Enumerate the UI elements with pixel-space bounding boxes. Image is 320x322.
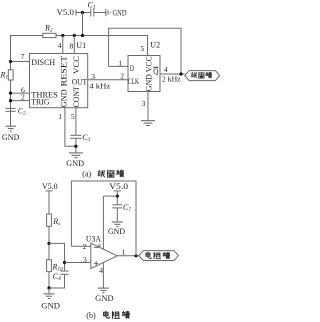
node junction output feedback bbox=[179, 72, 182, 75]
node junction output bbox=[134, 254, 137, 257]
svg-text:3: 3 bbox=[83, 255, 87, 264]
svg-text:8: 8 bbox=[97, 244, 103, 247]
node junction supply bbox=[116, 195, 119, 198]
U1 pin label THRES bbox=[31, 90, 58, 99]
wire pin 2 inverting input bbox=[71, 242, 90, 251]
wire V5.0 node down to rail bbox=[82, 13, 84, 36]
wire feedback output to pin 2 bbox=[71, 181, 136, 256]
svg-text:OUT: OUT bbox=[72, 78, 87, 87]
node junction C4 branch bbox=[63, 261, 66, 264]
svg-text:R1: R1 bbox=[0, 71, 8, 81]
ground below node B bbox=[41, 294, 60, 311]
svg-text:Rs: Rs bbox=[52, 217, 60, 227]
svg-text:4: 4 bbox=[99, 266, 103, 275]
wire V5.0 to Rs bbox=[48, 191, 50, 214]
svg-text:(a): (a) bbox=[82, 169, 91, 178]
U2 pin label VCC (rotated) bbox=[145, 56, 154, 72]
node junction pin7 bbox=[9, 60, 12, 63]
wire Qbar output pin 4 bbox=[160, 65, 185, 84]
svg-text:CLK: CLK bbox=[128, 77, 139, 86]
svg-text:TRIG: TRIG bbox=[31, 97, 49, 106]
IC U1 555 timer box bbox=[30, 41, 88, 108]
svg-text:VCC: VCC bbox=[72, 56, 81, 74]
capacitor C4 bbox=[53, 271, 69, 282]
ground below C2 bbox=[2, 126, 20, 142]
resistor Rs bbox=[47, 214, 61, 227]
capacitor C1 bbox=[88, 1, 96, 17]
svg-text:GND: GND bbox=[59, 89, 68, 107]
IC U2 flip-flop box bbox=[128, 40, 160, 91]
wire Rs to node A bbox=[48, 226, 50, 288]
wire pin 8 supply stub bbox=[97, 196, 104, 249]
resistor R1 bbox=[0, 70, 13, 81]
svg-text:Q: Q bbox=[153, 67, 158, 76]
wire V5.0 down to C7 bbox=[116, 191, 118, 205]
wire pin 6 THRES bbox=[11, 85, 30, 94]
wire U1 pin 1 GND bbox=[58, 108, 76, 147]
svg-text:GND: GND bbox=[2, 133, 20, 142]
svg-text:C7: C7 bbox=[123, 203, 131, 213]
capacitor C3 bbox=[70, 133, 90, 143]
svg-text:7: 7 bbox=[21, 52, 25, 61]
svg-text:C2: C2 bbox=[18, 106, 26, 116]
svg-text:U1: U1 bbox=[76, 41, 86, 50]
wire pin 3 OUT to CLK bbox=[88, 71, 128, 90]
ground (sideways) at C1 bbox=[106, 8, 127, 17]
wire pin 5 label U2 bbox=[141, 44, 145, 53]
wire C4 to node B bbox=[49, 274, 65, 288]
ground below C7 bbox=[108, 222, 125, 236]
wire C1 to ground bbox=[94, 12, 106, 14]
svg-text:2: 2 bbox=[21, 92, 25, 101]
svg-text:1: 1 bbox=[118, 59, 122, 68]
wire U1 pin 5 CONT bbox=[71, 108, 76, 136]
svg-text:GND: GND bbox=[108, 227, 125, 236]
wire C3 to ground bbox=[75, 138, 77, 153]
wire D input pin 1 bbox=[109, 59, 128, 68]
wire C2 to ground bbox=[10, 111, 12, 126]
node junction V5 rail bbox=[81, 34, 84, 37]
svg-text:V5.0: V5.0 bbox=[109, 182, 128, 191]
node junction B bbox=[47, 286, 50, 289]
svg-text:5: 5 bbox=[71, 112, 75, 121]
U2 pin label CLK bbox=[128, 77, 139, 86]
svg-text:2 kHz: 2 kHz bbox=[162, 74, 181, 83]
node junction A bbox=[47, 242, 50, 245]
node junction pin2 bbox=[9, 99, 12, 102]
op-amp U3A bbox=[86, 235, 117, 269]
svg-text:GND: GND bbox=[66, 159, 84, 168]
caption (a) 线圈端 bbox=[82, 169, 123, 178]
svg-text:1: 1 bbox=[122, 247, 126, 256]
net flag 线圈端 (coil end) bbox=[185, 71, 220, 81]
node junction pin8 bbox=[73, 34, 76, 37]
svg-text:3: 3 bbox=[142, 99, 146, 108]
caption (b) 电阻端 bbox=[86, 311, 129, 320]
wire supply branch to pin 8 bbox=[103, 195, 117, 197]
svg-text:C3: C3 bbox=[82, 133, 90, 143]
svg-text:C4: C4 bbox=[53, 272, 61, 282]
resistor R2 bbox=[43, 23, 56, 37]
wire pin 3 noninverting input bbox=[65, 255, 91, 264]
svg-text:U3A: U3A bbox=[86, 235, 101, 244]
svg-text:3: 3 bbox=[91, 72, 95, 81]
svg-text:2: 2 bbox=[83, 242, 87, 251]
svg-text:R2: R2 bbox=[44, 23, 53, 33]
wire pin 4 stub bbox=[58, 36, 63, 54]
U1 pin label TRIG bbox=[31, 97, 49, 106]
U1 pin label DISCH bbox=[31, 58, 55, 67]
wire feedback Qbar to D bbox=[109, 28, 181, 74]
wire pin 4 ground stub bbox=[99, 262, 103, 288]
ground below op-amp bbox=[95, 288, 114, 303]
svg-text:GND: GND bbox=[113, 8, 127, 17]
ground below U2 bbox=[141, 121, 155, 126]
U1 pin label CONT (rotated) bbox=[72, 86, 81, 107]
svg-text:(b): (b) bbox=[86, 311, 96, 320]
U1 pin label GND (rotated) bbox=[59, 89, 68, 107]
svg-text:4: 4 bbox=[58, 41, 62, 50]
svg-text:4 kHz: 4 kHz bbox=[89, 81, 111, 90]
wire U2 pin 3 to ground bbox=[142, 92, 148, 121]
svg-text:5: 5 bbox=[141, 44, 145, 53]
wire C7 to ground bbox=[116, 208, 118, 222]
svg-text:V5.0: V5.0 bbox=[42, 182, 58, 191]
svg-text:1: 1 bbox=[58, 112, 62, 121]
svg-text:2: 2 bbox=[120, 71, 124, 80]
U2 pin label GND (rotated) bbox=[145, 74, 154, 91]
wire pin 2 TRIG bbox=[11, 92, 30, 101]
capacitor C2 bbox=[6, 106, 27, 116]
wire pin 8 stub bbox=[70, 36, 75, 54]
svg-text:GND: GND bbox=[95, 294, 114, 303]
node junction V5.0 bbox=[81, 11, 84, 14]
svg-text:GND: GND bbox=[41, 302, 60, 311]
U1 pin label OUT bbox=[72, 78, 87, 87]
svg-text:GND: GND bbox=[145, 74, 154, 91]
svg-text:D: D bbox=[130, 64, 134, 73]
capacitor C7 bbox=[112, 203, 131, 213]
power terminal V5.0 left bbox=[42, 182, 58, 191]
svg-text:RESET: RESET bbox=[59, 56, 68, 87]
svg-text:C1: C1 bbox=[88, 1, 96, 11]
wire supply rail bbox=[11, 36, 148, 127]
net flag 电阻端 (resistor end) bbox=[139, 251, 179, 261]
wire pin 7 DISCH bbox=[11, 52, 30, 61]
ground below U1 bbox=[66, 153, 84, 168]
node junction pin4 bbox=[61, 34, 64, 37]
svg-text:VCC: VCC bbox=[145, 56, 154, 72]
power terminal V5.0 bbox=[57, 8, 77, 17]
svg-text:DISCH: DISCH bbox=[31, 58, 55, 67]
svg-text:V5.0: V5.0 bbox=[57, 8, 75, 17]
power terminal V5.0 right bbox=[109, 182, 128, 191]
wire node B to ground bbox=[48, 288, 50, 294]
svg-text:4: 4 bbox=[164, 65, 168, 74]
svg-text:CONT: CONT bbox=[72, 86, 81, 107]
U1 pin label RESET (rotated) bbox=[59, 56, 68, 87]
wire output pin 1 bbox=[117, 247, 139, 256]
node junction pin1 pin5 bbox=[74, 145, 77, 148]
U1 pin label VCC (rotated) bbox=[72, 56, 81, 74]
svg-text:8: 8 bbox=[70, 41, 74, 50]
wire V5.0 to C1 bbox=[76, 12, 91, 14]
U2 pin label Qbar bbox=[153, 67, 158, 76]
resistor R10 bbox=[47, 260, 63, 273]
wire C4 branch bbox=[49, 243, 65, 271]
node junction pin6 bbox=[9, 92, 12, 95]
svg-text:U2: U2 bbox=[150, 40, 160, 49]
U2 pin label D bbox=[130, 64, 134, 73]
